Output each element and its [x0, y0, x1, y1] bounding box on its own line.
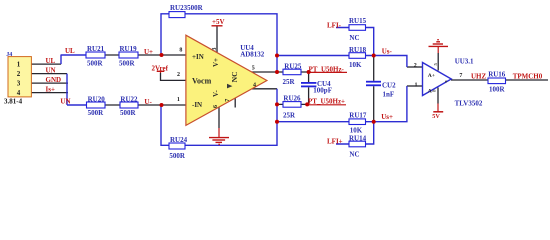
svg-text:10K: 10K	[349, 61, 362, 69]
svg-text:UL: UL	[46, 57, 56, 65]
svg-text:TLV3502: TLV3502	[455, 99, 483, 107]
svg-text:RU22: RU22	[120, 95, 138, 103]
svg-text:RU23500R: RU23500R	[170, 4, 204, 12]
svg-text:500R: 500R	[120, 109, 137, 117]
svg-text:1: 1	[17, 61, 21, 69]
svg-text:6: 6	[213, 105, 219, 108]
svg-text:10K: 10K	[350, 126, 363, 134]
svg-text:4: 4	[17, 89, 21, 97]
svg-text:RU18: RU18	[349, 46, 367, 54]
svg-text:5V: 5V	[432, 113, 440, 120]
svg-text:1: 1	[415, 83, 418, 89]
svg-text:100pF: 100pF	[313, 87, 332, 95]
svg-text:RU17: RU17	[349, 112, 367, 120]
svg-text:2: 2	[177, 72, 180, 78]
svg-text:7: 7	[225, 99, 231, 102]
svg-text:25R: 25R	[283, 78, 296, 86]
svg-text:3.81-4: 3.81-4	[4, 97, 23, 105]
svg-text:3: 3	[17, 80, 21, 88]
svg-text:5: 5	[252, 66, 255, 72]
svg-text:3: 3	[212, 48, 218, 51]
svg-text:A+: A+	[428, 73, 435, 79]
svg-text:4: 4	[253, 82, 256, 88]
svg-text:A∞: A∞	[428, 89, 436, 95]
svg-text:RU25: RU25	[284, 63, 302, 71]
svg-text:RU14: RU14	[349, 134, 367, 142]
svg-text:RU24: RU24	[170, 136, 188, 144]
svg-text:NC: NC	[349, 34, 359, 42]
svg-text:500R: 500R	[169, 152, 186, 160]
svg-text:RU15: RU15	[349, 17, 367, 25]
svg-text:UL: UL	[65, 47, 75, 55]
svg-text:AD8132: AD8132	[240, 51, 265, 59]
svg-text:2Vref: 2Vref	[152, 64, 169, 72]
svg-text:2: 2	[414, 63, 417, 69]
svg-text:V-: V-	[212, 89, 220, 97]
svg-text:GND: GND	[46, 76, 62, 84]
svg-text:Vocm: Vocm	[192, 77, 212, 86]
svg-text:LFI-: LFI-	[327, 21, 342, 29]
svg-text:1nF: 1nF	[383, 90, 395, 98]
svg-text:1: 1	[177, 97, 180, 103]
svg-text:2: 2	[17, 70, 21, 78]
svg-text:UU3.1: UU3.1	[455, 57, 474, 65]
svg-text:UHZ: UHZ	[471, 73, 487, 81]
svg-text:25R: 25R	[283, 112, 296, 120]
svg-text:+5V: +5V	[212, 18, 225, 26]
svg-text:100R: 100R	[489, 86, 506, 94]
svg-text:500R: 500R	[119, 60, 136, 68]
svg-text:Us+: Us+	[381, 113, 393, 121]
svg-text:NC: NC	[349, 150, 359, 158]
svg-text:-IN: -IN	[192, 101, 202, 109]
svg-text:NC: NC	[230, 71, 239, 82]
svg-text:U-: U-	[144, 98, 152, 106]
svg-text:500R: 500R	[87, 60, 104, 68]
svg-text:UN: UN	[60, 97, 70, 105]
svg-text:V+: V+	[212, 58, 220, 67]
svg-text:TPMCH0: TPMCH0	[513, 73, 543, 81]
svg-text:500R: 500R	[88, 109, 105, 117]
svg-text:Us-: Us-	[382, 48, 393, 56]
svg-text:5: 5	[433, 63, 438, 66]
svg-text:PT_U50Hz+: PT_U50Hz+	[308, 98, 345, 106]
svg-text:CU2: CU2	[382, 82, 396, 90]
svg-text:U+: U+	[144, 48, 153, 56]
svg-text:RU16: RU16	[488, 71, 506, 79]
svg-text:LFI+: LFI+	[327, 137, 343, 145]
svg-text:8: 8	[179, 48, 182, 54]
svg-text:7: 7	[459, 73, 462, 79]
svg-text:RU19: RU19	[120, 45, 138, 53]
svg-text:+IN: +IN	[192, 53, 204, 61]
svg-text:RU20: RU20	[88, 95, 106, 103]
svg-text:UN: UN	[46, 67, 56, 75]
svg-text:RU26: RU26	[283, 95, 301, 103]
svg-text:RU21: RU21	[87, 45, 105, 53]
svg-text:J4: J4	[6, 52, 12, 58]
svg-text:Is+: Is+	[46, 86, 55, 94]
svg-text:PT_U50Hz-: PT_U50Hz-	[309, 65, 345, 73]
